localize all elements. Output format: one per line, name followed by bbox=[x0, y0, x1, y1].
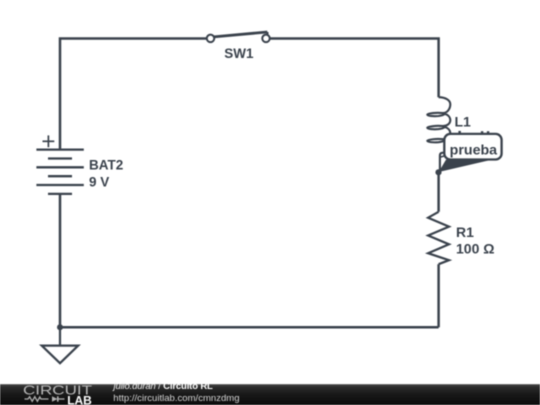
flag tail wedge bbox=[439, 160, 490, 172]
L1 value text tops (hidden behind flag) bbox=[458, 131, 489, 134]
svg-text:100 Ω: 100 Ω bbox=[456, 241, 494, 257]
svg-text:BAT2: BAT2 bbox=[89, 158, 123, 173]
wire resistor to bottom corner bbox=[437, 264, 440, 327]
svg-text:prueba: prueba bbox=[450, 142, 498, 158]
ground symbol triangle bbox=[42, 346, 78, 364]
flag box prueba bbox=[444, 134, 501, 160]
svg-text:http://circuitlab.com/cmnzdmg: http://circuitlab.com/cmnzdmg bbox=[113, 393, 239, 404]
wire node to resistor bbox=[437, 172, 440, 212]
resistor R1 zigzag bbox=[428, 212, 449, 264]
logo squiggle resistor bbox=[25, 397, 49, 402]
switch SW1 terminal 2 bbox=[262, 35, 270, 43]
svg-text:9 V: 9 V bbox=[89, 174, 109, 189]
battery BAT2 bbox=[36, 150, 83, 194]
svg-text:SW1: SW1 bbox=[224, 46, 254, 61]
battery plus sign bbox=[43, 135, 55, 147]
wire top-right rail (switch to inductor) bbox=[270, 39, 438, 98]
svg-text:R1: R1 bbox=[456, 224, 474, 240]
inductor L1 coil bbox=[427, 97, 450, 171]
flag pointer line bbox=[440, 156, 446, 172]
node dot L1/R1/flag bbox=[435, 169, 441, 175]
logo wire bbox=[59, 398, 65, 400]
logo diode bbox=[52, 396, 58, 401]
wire battery - to ground node bbox=[59, 194, 62, 327]
switch SW1 lever bbox=[214, 32, 268, 37]
wire top-left rail (battery + to switch) bbox=[60, 39, 207, 150]
switch SW1 terminal 1 bbox=[207, 35, 215, 43]
svg-text:LAB: LAB bbox=[67, 394, 92, 405]
svg-text:julio.duran / Circuito RL: julio.duran / Circuito RL bbox=[112, 381, 214, 392]
ground stub wire bbox=[59, 327, 61, 345]
logo diode bar bbox=[57, 396, 59, 401]
junction dot ground node bbox=[57, 324, 63, 330]
svg-text:L1: L1 bbox=[455, 113, 472, 129]
switch SW1 bbox=[207, 32, 270, 42]
wire bottom rail bbox=[60, 326, 439, 329]
